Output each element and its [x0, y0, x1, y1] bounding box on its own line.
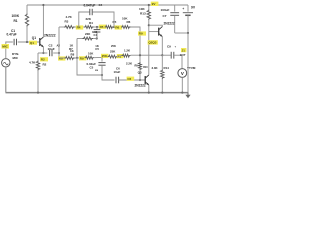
- wire: R6 to vertical drop at x139: [131, 27, 141, 62]
- label: MIC highlighted: [2, 44, 10, 49]
- wire: Q1 emitter down to emitter node: [42, 47, 44, 53]
- svg-text:R10: R10: [143, 66, 148, 69]
- transistor Q3 2N2222 oscillator: [144, 76, 146, 84]
- wire: Q3 collector up to R13 node: [148, 25, 150, 75]
- svg-text:C4: C4: [99, 3, 103, 7]
- svg-text:R14: R14: [164, 66, 170, 70]
- wire: R5 to R6 segment: [114, 26, 122, 28]
- label: highlighted ladder node 2: [99, 25, 106, 29]
- node: C4 to R7 junction: [96, 37, 98, 39]
- wire: shunt return from x77 node to C5 leg: [77, 58, 102, 75]
- node: feedback ladder junction at x77: [76, 57, 78, 59]
- node: R12 tap junction: [139, 54, 141, 56]
- wire: emitter node horizontal: [38, 52, 47, 54]
- svg-text:2.2K: 2.2K: [126, 61, 133, 65]
- label: highlighted output tag: [181, 48, 186, 52]
- wire: C2 to node A: [53, 52, 59, 54]
- wire: R4 to R5 segment: [94, 26, 106, 28]
- label: highlighted feedback node D: [117, 54, 124, 58]
- resistor R10 feedback ladder third: [108, 55, 118, 58]
- ground: earth arrow symbol: [187, 93, 189, 96]
- svg-text:25K: 25K: [102, 54, 108, 58]
- wire: R3 to R4 segment: [75, 26, 85, 28]
- svg-text:Q1: Q1: [30, 41, 34, 45]
- svg-text:MIC: MIC: [13, 56, 19, 60]
- capacitor C5 feedback shunt leg: [101, 57, 103, 61]
- resistor R6 top ladder fourth: [121, 26, 131, 29]
- svg-text:R5: R5: [100, 25, 104, 29]
- node: collector node junction: [148, 24, 150, 26]
- node: output node junction: [161, 54, 163, 56]
- svg-text:2N2222: 2N2222: [135, 84, 146, 88]
- svg-text:R4: R4: [89, 21, 93, 25]
- wire: C6 to Q3 base: [119, 79, 145, 81]
- wire: C7 to battery negative link: [175, 32, 188, 34]
- svg-text:R2: R2: [41, 58, 45, 62]
- wire: battery negative down to ground rail: [187, 33, 189, 93]
- node: R14 ground junction: [161, 92, 163, 94]
- wire: node A vertical riser: [58, 27, 60, 58]
- label: highlighted feedback node C: [101, 54, 108, 58]
- wire: Q3 emitter to ground rail: [148, 85, 150, 93]
- wire: C9 to output jack: [174, 54, 182, 56]
- label: highlighted supply tag: [151, 2, 159, 6]
- resistor R5 top ladder third: [105, 26, 114, 29]
- svg-text:OUT: OUT: [180, 53, 186, 57]
- svg-text:R9: R9: [80, 57, 84, 61]
- resistor R9 feedback ladder second: [85, 56, 95, 59]
- wire: collector node to Q2 collector: [149, 25, 163, 26]
- label: highlighted Q2 designator: [148, 40, 158, 44]
- wire: R9 to R10 segment: [94, 56, 108, 59]
- label: highlighted node on drop wire: [138, 31, 146, 35]
- svg-text:MIC: MIC: [2, 45, 8, 49]
- svg-text:2N2222: 2N2222: [164, 21, 175, 25]
- resistor R12 tap to base node: [139, 62, 142, 70]
- wire: R7 down to feedback ladder: [76, 39, 78, 58]
- node: emitter node junction: [42, 52, 44, 54]
- svg-text:1.2K: 1.2K: [124, 48, 131, 52]
- label: highlighted feedback node B: [79, 56, 86, 60]
- svg-text:R8: R8: [59, 57, 63, 61]
- svg-text:R6: R6: [127, 20, 131, 24]
- svg-text:Q1: Q1: [32, 36, 36, 40]
- svg-text:R1: R1: [14, 19, 18, 23]
- svg-text:R3: R3: [65, 20, 69, 24]
- node: R1 to base wire junction: [26, 41, 28, 43]
- svg-text:A2: A2: [57, 43, 61, 47]
- resistor R1 100K bias: [26, 5, 28, 14]
- svg-text:V: V: [181, 71, 184, 76]
- node: R2 ground junction: [37, 92, 39, 94]
- meter M1 VTVM indicator: [178, 69, 187, 78]
- svg-text:25K: 25K: [111, 44, 116, 48]
- wire: +9V top supply rail: [27, 4, 188, 6]
- wire: feedback ladder to Q2 emitter node: [131, 54, 163, 56]
- label: highlighted base node: [127, 77, 135, 81]
- capacitor C4 ladder shunt leg: [96, 27, 98, 30]
- transistor Q2 2N2222 output follower: [158, 28, 160, 36]
- wire: meter to ground rail: [181, 77, 183, 92]
- capacitor C6 base coupling 10uF: [115, 77, 117, 84]
- label: highlighted feedback node A: [58, 56, 65, 60]
- svg-text:C7: C7: [163, 14, 167, 18]
- wire: mic top lead to input node: [6, 42, 13, 59]
- svg-text:Q3: Q3: [138, 70, 142, 74]
- svg-text:C6: C6: [127, 77, 131, 81]
- node A: junction of C2, top ladder and feedback ladder: [58, 52, 60, 54]
- svg-text:0.047uF: 0.047uF: [84, 4, 96, 8]
- node: ladder junction with C3 right leg: [113, 26, 115, 28]
- svg-text:R2: R2: [43, 62, 47, 66]
- wire: mic bottom lead to ground rail: [5, 67, 7, 93]
- svg-text:4.7K: 4.7K: [29, 60, 36, 64]
- resistor R11 feedback ladder fourth: [122, 54, 131, 57]
- node: negative link junction: [187, 32, 189, 34]
- svg-text:C4: C4: [94, 33, 98, 37]
- node: ladder junction with C4 leg: [96, 26, 98, 28]
- node: return wire to C5 leg junction: [101, 74, 103, 76]
- svg-text:25K: 25K: [110, 50, 116, 54]
- resistor R3 top ladder first: [64, 26, 75, 29]
- resistor R13 10K collector load: [148, 5, 150, 10]
- capacitor C9 output coupling: [170, 52, 172, 59]
- node: C5 leg junction: [101, 56, 103, 58]
- capacitor C7 100uF supply bypass: [174, 5, 176, 12]
- svg-text:J1: J1: [182, 48, 186, 52]
- svg-text:100K: 100K: [12, 14, 20, 18]
- svg-text:2N2222: 2N2222: [44, 33, 56, 37]
- svg-text:R13: R13: [140, 12, 146, 16]
- resistor R7 shunt row: [83, 37, 94, 40]
- resistor R14 3.3K emitter load: [161, 55, 163, 69]
- svg-text:10uF: 10uF: [114, 70, 121, 74]
- wire: Q1 collector to +9V rail: [42, 5, 44, 37]
- capacitor C3 0.047uF across ladder: [79, 12, 90, 27]
- svg-text:R5: R5: [113, 20, 117, 24]
- wire: Q2 emitter down to output node: [161, 37, 163, 56]
- node: base node junction: [139, 79, 141, 81]
- wire: jack down to meter: [181, 55, 183, 68]
- resistor R4 top ladder second: [84, 26, 94, 29]
- svg-text:22K: 22K: [85, 32, 91, 36]
- svg-text:0.47uF: 0.47uF: [7, 33, 17, 37]
- node: Q3 emitter ground junction: [148, 92, 150, 94]
- node: collector rail junction: [42, 4, 44, 6]
- wire: collector node to Q2 base: [149, 31, 159, 33]
- label: highlighted ladder node 3: [115, 25, 122, 29]
- capacitor C1 0.47uF input coupling: [13, 39, 15, 45]
- svg-text:100uF: 100uF: [161, 8, 170, 12]
- svg-text:10K: 10K: [139, 7, 145, 11]
- label: R2 highlighted: [40, 57, 48, 61]
- wire: output node to C9: [162, 54, 171, 56]
- svg-text:3.3K: 3.3K: [152, 66, 159, 70]
- svg-text:+: +: [182, 7, 184, 11]
- svg-text:C5: C5: [90, 66, 94, 70]
- wire: C1 to Q1 base: [18, 41, 40, 43]
- label: Q1 highlighted designator: [29, 41, 37, 45]
- transistor Q1 2N2222 emitter follower: [39, 38, 41, 46]
- node: meter ground junction: [181, 92, 183, 94]
- capacitor C2 10uF emitter coupling: [49, 50, 51, 56]
- resistor R8 feedback ladder first: [65, 57, 75, 60]
- svg-text:R8: R8: [71, 52, 75, 56]
- svg-text:C5: C5: [95, 47, 99, 51]
- node: ladder junction with C3 left leg: [78, 26, 80, 28]
- resistor R2 4.7K emitter to ground: [37, 53, 39, 61]
- svg-text:C9: C9: [167, 45, 171, 49]
- svg-text:Q2Q3: Q2Q3: [148, 41, 156, 45]
- microphone MIC: [2, 59, 10, 67]
- svg-text:10K: 10K: [88, 51, 94, 55]
- svg-text:4.7K: 4.7K: [66, 15, 73, 19]
- wire: ground bottom rail: [6, 92, 189, 94]
- battery B1 9V: [187, 5, 189, 12]
- svg-text:R9: R9: [139, 32, 143, 36]
- wire: R8 to R9 segment: [75, 57, 85, 59]
- svg-text:R6: R6: [115, 26, 119, 30]
- label: highlighted ladder node: [76, 25, 83, 29]
- svg-text:10uF: 10uF: [48, 47, 55, 51]
